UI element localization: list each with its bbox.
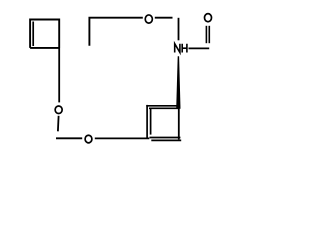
wire: bond O4 to C <box>155 17 173 19</box>
wire: bond O2 to ring R2 <box>95 137 150 139</box>
wire: bond C down to N <box>178 18 180 41</box>
cyclobutene ring R1 (top-left square) <box>30 20 59 49</box>
O2 atom label <box>85 135 92 143</box>
ring R2 inner top edge <box>149 107 179 109</box>
double bond inner line of ring R1 <box>32 22 34 47</box>
ring R2 outer left edge <box>146 105 148 138</box>
ring R2 outer top edge <box>146 105 179 107</box>
ring R2 inner left edge <box>150 108 152 135</box>
C=O double bond line 1 <box>205 26 207 43</box>
NH atom label <box>175 44 187 53</box>
wire: bond N to formyl C <box>189 47 210 49</box>
ring R2 bottom edge B <box>151 139 181 141</box>
ring R2 bottom edge A <box>150 137 181 139</box>
wire: bond from O1 down <box>57 116 60 132</box>
ring R2 right edge <box>178 109 180 140</box>
wedge bond from NH down to ring R2 <box>176 56 180 109</box>
wire: ethyl group (CH3-CH2 corner) <box>89 18 142 46</box>
wire: bond CH2 to O2 <box>56 137 82 139</box>
wire: bond from ring R1 down to O1 <box>58 48 60 102</box>
C=O double bond line 2 <box>208 26 210 43</box>
O1 atom label <box>55 106 62 114</box>
O4 atom label (ether oxygen, top) <box>145 15 152 23</box>
O3 atom label (formyl oxygen) <box>205 14 212 22</box>
